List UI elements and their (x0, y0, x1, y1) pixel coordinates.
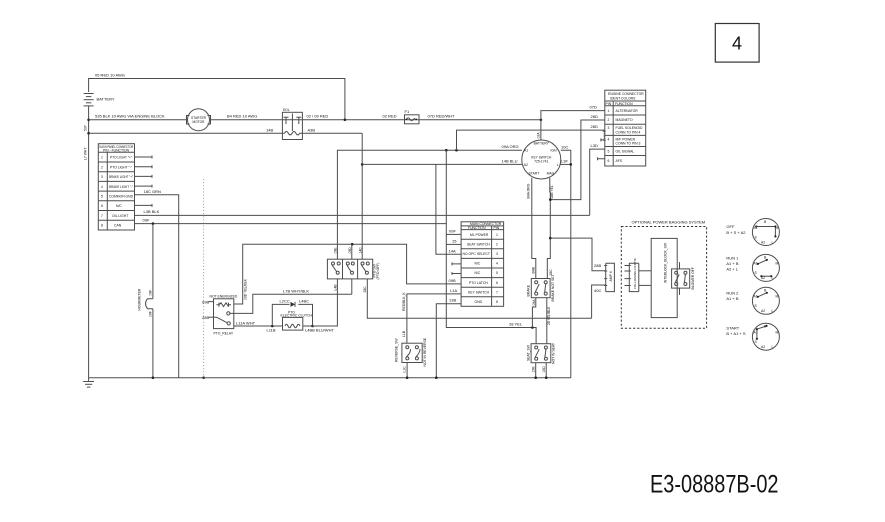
svg-text:ML POWER: ML POWER (470, 233, 489, 237)
svg-text:AFS: AFS (616, 159, 623, 163)
svg-text:L3F: L3F (561, 159, 568, 164)
svg-text:M: M (776, 331, 779, 335)
svg-text:L4B: L4B (334, 284, 338, 291)
svg-text:NOT IN SEAT: NOT IN SEAT (551, 343, 555, 364)
svg-text:28B: 28B (594, 263, 601, 268)
dash connector pin stubs 1-4,6 (135, 156, 153, 207)
svg-text:SOL: SOL (283, 108, 290, 112)
wire L1A key switch row 7 to reverse switch (402, 288, 461, 343)
wire battery negative 535 BLK to ground bus left vertical (84, 106, 90, 378)
svg-text:NO OPC SELECT: NO OPC SELECT (463, 252, 491, 256)
wire 09D YEL/BLK relay coil to main connector pin 6 (234, 243, 461, 304)
svg-text:A1 + B: A1 + B (726, 296, 738, 301)
interlock switch S6 (672, 262, 695, 295)
svg-text:B + A1 + S: B + A1 + S (726, 331, 745, 336)
svg-text:09F: 09F (143, 218, 150, 223)
hourmeter P2 (138, 224, 153, 378)
svg-text:1: 1 (608, 109, 610, 113)
svg-text:09F: 09F (449, 228, 456, 233)
svg-text:CONN TO PIN 3: CONN TO PIN 3 (616, 142, 641, 146)
svg-text:02 / 09 RED: 02 / 09 RED (307, 113, 329, 118)
diode D1 clutch bypass (272, 299, 312, 326)
wire 10C / L3F key IGN and L line (560, 144, 573, 377)
AMP 4 connector P1 (604, 263, 614, 291)
svg-text:B4A ORG: B4A ORG (526, 183, 530, 198)
svg-text:537: 537 (84, 125, 88, 131)
dashed reference line (202, 179, 205, 379)
svg-text:28 YEL/BLK: 28 YEL/BLK (547, 306, 551, 325)
svg-text:L11A WHT: L11A WHT (236, 320, 256, 325)
svg-text:09F: 09F (149, 290, 153, 296)
svg-text:4: 4 (608, 137, 610, 141)
svg-text:BATTERY: BATTERY (534, 142, 550, 146)
svg-text:PIN - FUNCTION: PIN - FUNCTION (103, 148, 130, 152)
main connector N/C stubs rows 4,5 (452, 262, 461, 275)
wire battery positive 05 RED 10 AWG top bus (89, 73, 345, 120)
wire L3B BLK oil light line (135, 209, 590, 215)
svg-text:ALTERNATOR: ALTERNATOR (616, 109, 639, 113)
svg-text:A2: A2 (524, 163, 528, 167)
dash panel connector J1 table (98, 144, 134, 230)
svg-text:MAG: MAG (547, 171, 555, 175)
wire L11A WHT relay to clutch (234, 320, 272, 326)
svg-text:A1: A1 (524, 148, 528, 152)
svg-text:A2: A2 (761, 240, 765, 244)
key position diagram RUN 1 (726, 254, 779, 281)
main connector table J2 (461, 222, 504, 306)
svg-text:L: L (772, 240, 774, 244)
svg-text:3: 3 (496, 252, 498, 256)
svg-text:OIL SIGNAL: OIL SIGNAL (616, 149, 635, 153)
wire L3D oil signal from engine pin 5 (590, 143, 605, 215)
svg-text:4: 4 (732, 34, 742, 54)
svg-text:PTO LIGHT "-": PTO LIGHT "-" (110, 165, 133, 169)
svg-text:28D: 28D (591, 114, 598, 119)
svg-text:IGN: IGN (551, 148, 558, 152)
svg-text:B4B: B4B (531, 266, 535, 273)
svg-text:N/C: N/C (475, 262, 481, 266)
svg-text:COMMON GND: COMMON GND (109, 195, 134, 199)
svg-text:START: START (726, 326, 739, 331)
svg-text:14C: 14C (358, 247, 362, 254)
svg-text:14A: 14A (449, 248, 456, 253)
svg-text:3: 3 (101, 175, 103, 179)
svg-text:KEY SWITCH: KEY SWITCH (468, 290, 490, 294)
svg-text:07D RED/WHT: 07D RED/WHT (428, 113, 456, 118)
svg-text:BRAKE LIGHT "+": BRAKE LIGHT "+" (109, 175, 134, 179)
svg-text:BLOWER OFF: BLOWER OFF (691, 267, 695, 289)
svg-text:15B: 15B (531, 366, 535, 373)
svg-text:L2CC: L2CC (280, 299, 290, 304)
svg-text:09B: 09B (202, 299, 209, 304)
svg-text:B + S + A2: B + S + A2 (726, 230, 746, 235)
svg-text:535 BLK 10 AWG VIA ENGINE BLOC: 535 BLK 10 AWG VIA ENGINE BLOCK (95, 113, 165, 118)
svg-text:M: M (776, 262, 779, 266)
svg-text:BRAKE NOT SET: BRAKE NOT SET (551, 274, 555, 301)
svg-text:A2: A2 (761, 309, 765, 313)
wire 09A ORG key A1 accessory line (337, 144, 522, 259)
svg-text:28C: 28C (363, 286, 367, 293)
svg-text:8: 8 (496, 300, 498, 304)
svg-text:FUEL SOLENOID: FUEL SOLENOID (616, 126, 644, 130)
svg-text:07D: 07D (590, 105, 597, 110)
svg-text:09B: 09B (449, 278, 456, 283)
wire 02A key battery feed (537, 120, 541, 140)
svg-text:FUNCTION: FUNCTION (468, 226, 486, 230)
svg-text:B4 RED 10 AWG: B4 RED 10 AWG (227, 113, 257, 118)
wire PTO switch pin risers (351, 244, 353, 294)
svg-text:L: L (772, 345, 774, 349)
svg-text:RUN 2: RUN 2 (726, 291, 739, 296)
svg-text:725-1741: 725-1741 (534, 160, 548, 164)
svg-text:PIN: PIN (606, 102, 612, 106)
seat switch S4 (526, 343, 555, 379)
wire 09F / 15 YEL seat-switch feed vertical (446, 150, 536, 344)
svg-text:OFF: OFF (726, 224, 735, 229)
svg-text:L7 WHT: L7 WHT (84, 148, 88, 160)
wire 14B solenoid coil bus (89, 127, 364, 259)
wire 28D fuel solenoid from engine pin 3 (457, 124, 605, 150)
svg-text:6: 6 (101, 204, 103, 208)
svg-text:PTO_RELAY: PTO_RELAY (214, 332, 234, 336)
wire brake to seat 28 YEL/BLK (547, 298, 551, 344)
svg-text:15: 15 (452, 238, 457, 243)
svg-text:FUNCTION: FUNCTION (615, 102, 633, 106)
reverse switch S5 (394, 337, 437, 379)
svg-text:13B: 13B (449, 298, 456, 303)
svg-text:A2: A2 (761, 345, 765, 349)
svg-text:OIL LIGHT: OIL LIGHT (112, 214, 128, 218)
fuse F1 (405, 109, 420, 124)
key switch S1 (522, 140, 561, 179)
svg-text:PIN: PIN (494, 226, 500, 230)
svg-text:5: 5 (496, 271, 498, 275)
PTO electric clutch L1 (267, 310, 335, 332)
svg-text:2: 2 (101, 165, 103, 169)
svg-text:28B: 28B (202, 315, 209, 320)
PTO relay K2 (202, 294, 238, 335)
svg-text:L11B: L11B (267, 328, 276, 333)
svg-text:L: L (557, 163, 559, 167)
svg-text:ELECTRIC CLUTCH: ELECTRIC CLUTCH (281, 314, 313, 318)
engine pin 4 stub and pin3-4 link (601, 131, 606, 141)
svg-text:NOT ENERGIZED: NOT ENERGIZED (210, 294, 238, 298)
svg-text:L7B WHT/BLK: L7B WHT/BLK (283, 288, 309, 293)
svg-text:MOTOR: MOTOR (193, 120, 206, 124)
svg-text:A2 + L: A2 + L (726, 267, 738, 272)
starter solenoid K1 (282, 108, 302, 140)
wire 09F hourmeter feed (135, 218, 447, 225)
svg-text:(PTO OFF): (PTO OFF) (376, 263, 380, 280)
wire 18C GRN common ground to ground bus (135, 189, 179, 378)
svg-text:14B: 14B (266, 127, 273, 132)
svg-text:09A ORG: 09A ORG (502, 144, 519, 149)
svg-text:BRAKE: BRAKE (527, 284, 531, 296)
svg-text:2: 2 (608, 118, 610, 122)
svg-text:5: 5 (608, 149, 610, 153)
svg-text:09E: 09E (334, 247, 338, 254)
wire 28C PTO switch to bagging interlock line (367, 279, 591, 318)
key position diagram RUN 2 (726, 287, 779, 314)
svg-text:PTO LIGHT "+": PTO LIGHT "+" (110, 156, 133, 160)
svg-text:M: M (776, 295, 779, 299)
svg-text:SEAT SWITCH: SEAT SWITCH (467, 242, 490, 246)
svg-text:L1A: L1A (450, 288, 457, 293)
svg-text:3: 3 (608, 126, 610, 130)
wire brake left to 28 YEL junction (532, 298, 536, 328)
svg-text:L4BB BLU/WHT: L4BB BLU/WHT (305, 328, 334, 333)
wire 40C bagging AMP connector pin 4 (592, 285, 606, 318)
starter motor M1 (187, 109, 211, 131)
wire 07D to engine pin 1 (541, 105, 605, 120)
svg-text:SEAT_SW: SEAT_SW (526, 344, 530, 361)
svg-text:RUN 1: RUN 1 (726, 256, 739, 261)
svg-text:28D: 28D (591, 124, 598, 129)
svg-text:6: 6 (608, 159, 610, 163)
svg-text:START: START (529, 171, 540, 175)
svg-text:L1C: L1C (403, 366, 407, 373)
svg-text:IDENT COLORS: IDENT COLORS (610, 96, 636, 100)
wire 28B to bagging AMP connector pin 2 (550, 238, 605, 271)
svg-text:NOT IN REVERSE: NOT IN REVERSE (423, 337, 427, 366)
svg-text:MAGNETO: MAGNETO (616, 118, 633, 122)
svg-text:10C: 10C (561, 144, 568, 149)
svg-text:BRAKE LIGHT "-": BRAKE LIGHT "-" (109, 185, 134, 189)
svg-text:INTERLOCK_BLOCK_SW: INTERLOCK_BLOCK_SW (664, 242, 668, 283)
svg-text:REVERSE_SW: REVERSE_SW (394, 338, 398, 362)
svg-text:GND: GND (475, 300, 483, 304)
brake switch S3 (527, 274, 556, 301)
svg-text:RED/BLK_K: RED/BLK_K (402, 292, 406, 311)
svg-text:CONN TO PIN 4: CONN TO PIN 4 (616, 130, 641, 134)
interlock block outline (639, 238, 677, 317)
wire 13B GND row 8 to ground bus (436, 298, 461, 378)
svg-text:7: 7 (496, 290, 498, 294)
svg-text:N/C: N/C (116, 204, 122, 208)
svg-text:1: 1 (101, 156, 103, 160)
svg-text:8: 8 (101, 224, 103, 228)
svg-text:7: 7 (101, 214, 103, 218)
svg-text:BATTERY: BATTERY (97, 97, 115, 102)
ground bus bottom wire (89, 376, 571, 379)
svg-text:18C GRN: 18C GRN (144, 189, 161, 194)
ground symbol (83, 378, 94, 387)
svg-text:L3B BLK: L3B BLK (144, 209, 160, 214)
svg-text:05 RED 10 AWG: 05 RED 10 AWG (95, 73, 125, 78)
page number box (715, 24, 759, 63)
svg-text:L3D: L3D (591, 143, 598, 148)
svg-text:F1: F1 (405, 109, 410, 114)
svg-text:1: 1 (496, 233, 498, 237)
wire 14B BLU key A2 line (362, 159, 522, 255)
svg-text:09F: 09F (149, 311, 153, 317)
svg-text:CAN: CAN (114, 224, 122, 228)
svg-text:HOURMETER: HOURMETER (138, 288, 142, 310)
svg-text:28 YEL: 28 YEL (509, 322, 523, 327)
svg-text:15D: 15D (542, 366, 546, 373)
engine pin 6 stub (598, 157, 605, 160)
svg-text:02 RED: 02 RED (383, 113, 397, 118)
optional power bagging system dashed box (621, 220, 706, 329)
svg-text:M/F POWER: M/F POWER (616, 137, 636, 141)
wire 28B YEL key mag kill line (547, 178, 554, 279)
svg-text:02A: 02A (537, 132, 541, 139)
svg-text:L4BC: L4BC (299, 299, 309, 304)
wire B4A ORG key start to brake switch (526, 178, 536, 279)
svg-text:14B BLU: 14B BLU (502, 159, 518, 164)
svg-text:5: 5 (101, 195, 103, 199)
svg-text:40C: 40C (594, 288, 601, 293)
svg-text:E3-08887B-02: E3-08887B-02 (650, 471, 779, 499)
PTO switch S2 (327, 247, 380, 293)
svg-text:4: 4 (496, 262, 498, 266)
key position diagram START (726, 323, 779, 350)
svg-text:6: 6 (496, 281, 498, 285)
svg-text:A3B: A3B (308, 127, 316, 132)
bagging harness connector P2 (625, 257, 639, 291)
key position diagram OFF (726, 219, 779, 246)
svg-text:L: L (772, 309, 774, 313)
svg-text:AMP 4: AMP 4 (609, 271, 613, 281)
wire L7B WHT/BLK relay contact to PTO switch (230, 288, 352, 313)
svg-text:N/C: N/C (475, 271, 481, 275)
svg-text:28B YEL: 28B YEL (550, 185, 554, 198)
engine connector table (605, 90, 646, 166)
svg-text:09D YEL/BLK: 09D YEL/BLK (243, 278, 247, 300)
svg-text:09A: 09A (532, 299, 536, 306)
svg-text:L1B: L1B (402, 330, 406, 337)
wire L4BB BLU/WHT clutch to PTO switch (313, 279, 338, 326)
svg-text:2: 2 (496, 242, 498, 246)
svg-text:PTO LATCH: PTO LATCH (469, 281, 488, 285)
svg-text:A1 + B: A1 + B (726, 261, 738, 266)
svg-text:4: 4 (101, 185, 103, 189)
svg-text:OPTIONAL POWER BAGGING SYSTEM: OPTIONAL POWER BAGGING SYSTEM (632, 220, 706, 225)
battery B1 (84, 94, 115, 106)
wire 28D magneto kill from engine pin 2 (550, 114, 605, 200)
wire main power line 535 BLK / B4 RED / 02-09 RED / 02 RED / 07D RED/WHT (89, 113, 543, 121)
svg-text:FOLLOWING CKT/HC: FOLLOWING CKT/HC (633, 257, 637, 289)
